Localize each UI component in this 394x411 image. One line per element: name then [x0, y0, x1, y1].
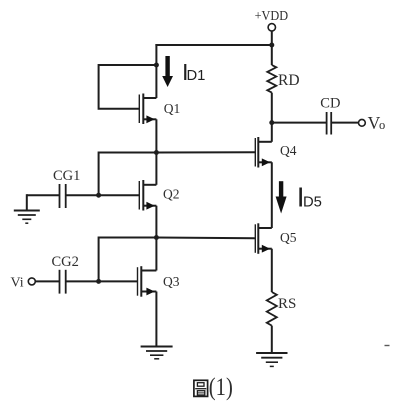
- svg-text:CG1: CG1: [53, 168, 80, 184]
- svg-text:Q2: Q2: [163, 186, 180, 201]
- power terminal +VDD: [255, 9, 289, 45]
- junction: VDD rail / RD: [269, 43, 274, 48]
- resistor RS: [267, 292, 297, 326]
- svg-text:Q1: Q1: [164, 101, 181, 116]
- ground (Q3 source): [141, 347, 173, 359]
- svg-text:Vi: Vi: [11, 276, 24, 291]
- wire: output node to Q4 drain: [271, 123, 273, 142]
- resistor RD: [267, 65, 299, 93]
- junction: node A (Q1 source / Q2 drain / Q4 gate): [154, 150, 159, 155]
- current arrow ID1: [162, 56, 173, 87]
- svg-text:CD: CD: [320, 96, 340, 112]
- wire: CG2 junction to Q3 gate: [99, 280, 138, 282]
- transistor Q1: [139, 94, 156, 125]
- wire: Q3 source to ground: [155, 292, 157, 347]
- wire: RS to ground: [271, 326, 273, 353]
- wire: node A to CG1 junction: [99, 153, 157, 196]
- wire: Q1 source to node A: [155, 119, 157, 153]
- svg-text:o: o: [379, 118, 385, 132]
- svg-text:D1: D1: [187, 68, 206, 84]
- svg-text:+VDD: +VDD: [255, 9, 289, 24]
- junction: feedback tap: [154, 63, 159, 68]
- label ID1: [182, 59, 205, 85]
- transistor Q5: [255, 223, 271, 254]
- wire: top rail: [155, 44, 271, 46]
- input terminal Vi: [11, 276, 36, 291]
- junction: CG1 / Q2 gate: [96, 193, 101, 198]
- wire: Q4 source to Q5 drain: [271, 162, 273, 228]
- wire: node A to Q4 gate: [156, 151, 255, 153]
- wire: RD to output node: [271, 93, 273, 124]
- wire: Q5 source to RS: [271, 249, 273, 292]
- wire: left column from rail to Q1 drain: [155, 44, 157, 98]
- svg-text:CG2: CG2: [52, 254, 79, 270]
- transistor Q3: [138, 266, 157, 297]
- wire: rail to RD: [271, 45, 273, 65]
- wire: Q2 drain to node A: [155, 153, 157, 185]
- capacitor CG1: [27, 168, 99, 208]
- svg-text:D5: D5: [303, 194, 322, 210]
- junction: output node (RD / Q4 drain / CD): [269, 120, 274, 125]
- junction: node B (Q2 source / Q3 drain / Q5 gate): [154, 235, 159, 240]
- ground (RS): [256, 353, 287, 366]
- capacitor CD: [272, 96, 359, 135]
- transistor Q2: [139, 180, 156, 211]
- wire: node B to CG2 junction: [99, 238, 157, 282]
- ground (CG1): [14, 211, 40, 224]
- wire: node B to Q5 gate: [156, 237, 255, 240]
- svg-text:Q5: Q5: [280, 230, 297, 245]
- transistor Q4: [255, 137, 271, 168]
- svg-text:RS: RS: [278, 296, 296, 312]
- wire: Q2 source to node B: [155, 206, 157, 239]
- svg-text:RD: RD: [278, 72, 300, 89]
- wire: Q1 gate feedback loop: [99, 65, 157, 109]
- wire: CG1 to ground: [26, 194, 28, 210]
- svg-text:Q3: Q3: [163, 274, 180, 289]
- label ID5: [297, 181, 322, 212]
- wire: Q3 drain to node B: [155, 238, 157, 271]
- svg-text:Q4: Q4: [280, 143, 297, 158]
- current arrow ID5: [276, 181, 287, 213]
- caption figure glyph (drawn CJK 圖): [194, 380, 208, 396]
- wire: CG1 junction to Q2 gate: [99, 194, 140, 196]
- artifact dash: [385, 345, 390, 347]
- svg-text:(1): (1): [209, 374, 233, 401]
- junction: CG2 / Q3 gate: [96, 279, 101, 284]
- output terminal Vo: [359, 113, 386, 133]
- capacitor CG2: [35, 254, 98, 294]
